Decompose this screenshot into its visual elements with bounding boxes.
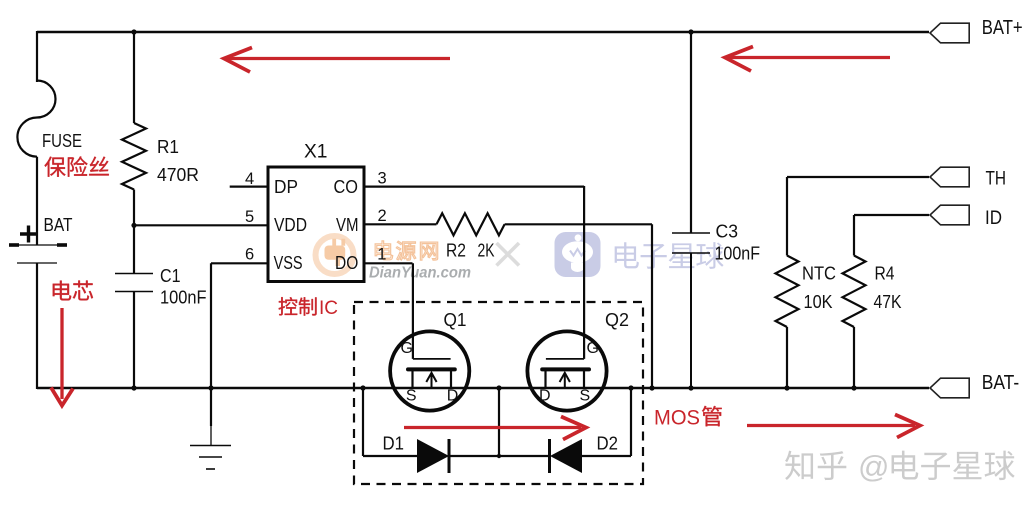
- node: junction VDD: [131, 223, 136, 228]
- svg-text:Q1: Q1: [444, 309, 467, 330]
- svg-text:S: S: [580, 388, 591, 405]
- transistor Q2 (NMOS): [527, 331, 606, 410]
- svg-text:R2: R2: [446, 239, 466, 260]
- node: junction diode row center: [497, 454, 501, 458]
- svg-text:R4: R4: [875, 263, 895, 284]
- svg-text:R1: R1: [157, 136, 179, 157]
- node: junction rail right riser: [628, 385, 633, 390]
- svg-text:1: 1: [377, 246, 386, 264]
- wire: DO column down to Q1 gate: [412, 263, 414, 359]
- svg-text:DO: DO: [335, 252, 358, 273]
- svg-text:C3: C3: [716, 221, 739, 242]
- terminal BAT+: [930, 23, 969, 43]
- resistor R2: [437, 213, 505, 235]
- svg-text:VM: VM: [336, 214, 359, 235]
- wire: left vertical from top rail to fuse: [36, 31, 38, 82]
- wire: VDD pin5 to junction: [134, 224, 268, 226]
- svg-text:G: G: [401, 340, 413, 357]
- pin 4 DP stub: [230, 186, 268, 188]
- battery BAT (cell symbol): [9, 244, 67, 246]
- resistor R1: [122, 123, 146, 190]
- svg-text:D1: D1: [383, 433, 405, 454]
- svg-text:ID: ID: [985, 208, 1002, 229]
- svg-text:FUSE: FUSE: [42, 130, 82, 151]
- svg-text:2: 2: [378, 207, 387, 225]
- wire: C1 to bottom rail: [133, 292, 135, 389]
- red arrow top-right (current direction): [729, 56, 890, 59]
- svg-text:D: D: [539, 388, 551, 405]
- node: junction top rail / R1: [131, 29, 136, 34]
- resistor NTC: [776, 256, 799, 328]
- watermark 电子星球 text: [615, 242, 724, 269]
- svg-text:BAT+: BAT+: [982, 17, 1023, 39]
- pin 3 CO wire: [364, 186, 584, 188]
- svg-text:DP: DP: [274, 176, 298, 197]
- capacitor C3: [690, 32, 692, 233]
- terminal BAT-: [930, 378, 969, 398]
- svg-text:S: S: [406, 388, 417, 405]
- svg-text:VDD: VDD: [274, 214, 307, 235]
- svg-text:2K: 2K: [478, 239, 495, 260]
- watermark 电源网 outline text: [375, 241, 438, 260]
- svg-text:IC: IC: [319, 298, 338, 319]
- terminal ID: [930, 205, 969, 225]
- pin 2 VM wire: [364, 223, 437, 225]
- wire: R1 to VDD junction and C1: [133, 190, 135, 274]
- svg-text:5: 5: [245, 208, 254, 226]
- diode D2: [550, 439, 582, 473]
- svg-text:6: 6: [245, 246, 254, 264]
- svg-text:100nF: 100nF: [160, 287, 207, 308]
- label 保险丝 (red): [45, 156, 109, 176]
- wire: R1 column from top rail: [133, 32, 135, 123]
- resistor R4: [843, 256, 866, 328]
- node: junction rail center: [496, 385, 501, 390]
- wire: CO column down to Q2 gate: [583, 186, 585, 359]
- watermark 知乎 @电子星球: [787, 452, 848, 482]
- watermark dianyuan logo circle: [316, 236, 354, 274]
- red arrow top-left (current direction): [228, 57, 450, 60]
- svg-text:D2: D2: [597, 433, 619, 454]
- wire: fuse to battery: [36, 157, 38, 245]
- wire: VM column down to bottom rail: [651, 224, 653, 388]
- watermark gray x: [497, 243, 520, 266]
- op IC X1 box: [268, 167, 364, 282]
- svg-text:@: @: [858, 449, 889, 484]
- svg-text:C1: C1: [160, 265, 181, 286]
- svg-text:G: G: [587, 340, 599, 357]
- red arrow bottom-right: [747, 424, 915, 427]
- wire: center drop rail to diode row: [498, 388, 500, 456]
- svg-text:3: 3: [378, 170, 387, 188]
- watermark xingqiu icon: [555, 232, 601, 277]
- dashed MOS box: [354, 302, 643, 484]
- svg-text:BAT: BAT: [44, 214, 73, 235]
- svg-text:TH: TH: [986, 169, 1007, 190]
- node: junction C1 / bottom rail: [131, 385, 136, 390]
- svg-text:4: 4: [245, 170, 254, 188]
- svg-text:470R: 470R: [157, 164, 199, 185]
- svg-text:VSS: VSS: [274, 252, 303, 273]
- wire: ID net: [854, 214, 929, 216]
- svg-text:BAT-: BAT-: [982, 372, 1020, 394]
- svg-text:DianYuan.com: DianYuan.com: [369, 265, 471, 282]
- wire: bottom BAT- rail: [37, 387, 929, 389]
- svg-text:100nF: 100nF: [715, 243, 761, 264]
- wire: TH net: [787, 176, 929, 178]
- svg-text:10K: 10K: [804, 291, 834, 312]
- svg-text:X1: X1: [304, 142, 328, 163]
- svg-text:NTC: NTC: [802, 263, 836, 284]
- transistor Q1 (NMOS): [390, 331, 469, 410]
- wire: VSS column down to bottom rail: [210, 263, 212, 389]
- node: junction VM / bottom rail: [649, 385, 654, 390]
- wire: rail to diode row (left drop): [362, 388, 364, 456]
- pin 6 VSS wire: [211, 262, 268, 264]
- wire: D2 to right riser: [582, 455, 631, 457]
- wire: R2 to VM column: [505, 223, 652, 225]
- svg-text:Q2: Q2: [605, 309, 629, 330]
- svg-text:CO: CO: [334, 176, 359, 197]
- capacitor C1: [115, 273, 153, 275]
- diode D1: [417, 439, 449, 473]
- node: junction VSS / bottom rail: [208, 385, 213, 390]
- wire: top BAT+ rail: [37, 31, 929, 33]
- svg-text:MOS: MOS: [654, 407, 700, 430]
- label 电芯 (red): [53, 280, 93, 300]
- fuse FUSE (S-curve symbol): [17, 81, 55, 157]
- terminal TH: [930, 167, 969, 187]
- wire: right riser to rail: [630, 388, 632, 456]
- pin 1 DO wire: [364, 262, 413, 264]
- ground: [210, 388, 212, 426]
- svg-text:D: D: [447, 388, 459, 405]
- red arrow in MOS box: [404, 426, 581, 429]
- wire: battery to bottom rail: [36, 263, 38, 389]
- svg-text:47K: 47K: [874, 291, 903, 312]
- wire: diode row left segment: [363, 455, 417, 457]
- wire: D1 to D2: [449, 455, 549, 457]
- red arrow down at battery: [60, 308, 63, 399]
- node: junction rail left drop: [360, 385, 365, 390]
- label 控制IC (red): [279, 297, 317, 315]
